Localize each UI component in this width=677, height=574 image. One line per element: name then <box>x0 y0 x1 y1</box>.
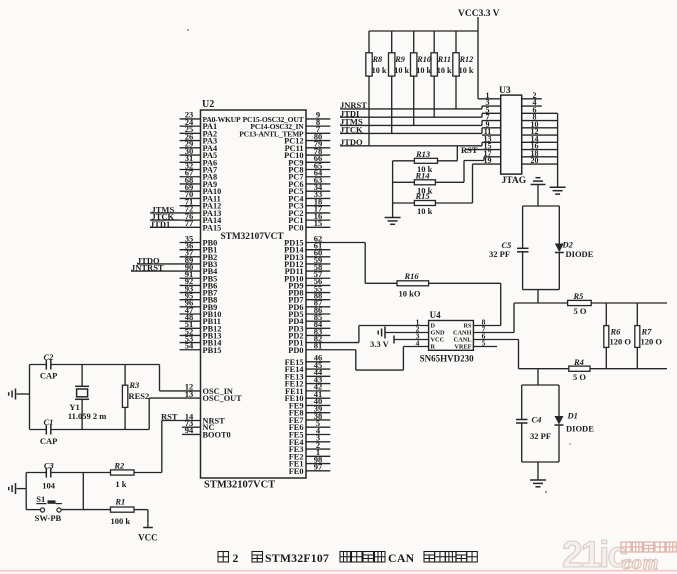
svg-text:97: 97 <box>314 462 323 472</box>
svg-text:DIODE: DIODE <box>566 249 594 259</box>
svg-text:10 k: 10 k <box>459 66 474 75</box>
svg-text:JTAG: JTAG <box>502 176 527 186</box>
svg-text:120 O: 120 O <box>610 336 632 346</box>
svg-text:R5: R5 <box>573 291 585 301</box>
svg-text:U4: U4 <box>430 310 441 320</box>
svg-text:32 PF: 32 PF <box>530 431 551 441</box>
svg-text:RES2: RES2 <box>129 391 150 401</box>
svg-text:R11: R11 <box>437 55 451 64</box>
svg-text:VREF: VREF <box>454 344 471 351</box>
svg-text:R3: R3 <box>128 380 140 390</box>
svg-text:PA15: PA15 <box>203 223 222 232</box>
svg-text:D1: D1 <box>567 410 578 420</box>
svg-text:R13: R13 <box>415 149 431 159</box>
svg-text:VCC3.3 V: VCC3.3 V <box>458 9 500 19</box>
svg-text:R14: R14 <box>415 171 430 181</box>
svg-text:PB15: PB15 <box>203 346 222 355</box>
svg-text:R7: R7 <box>641 326 653 336</box>
svg-text:VCC: VCC <box>138 533 158 543</box>
svg-text:GND: GND <box>431 330 445 337</box>
svg-text:10 kO: 10 kO <box>399 289 421 299</box>
svg-text:R10: R10 <box>416 55 431 64</box>
svg-text:RST: RST <box>161 411 178 421</box>
svg-text:FE0: FE0 <box>289 467 304 476</box>
svg-text:32 PF: 32 PF <box>489 249 510 259</box>
svg-text:R15: R15 <box>415 191 431 201</box>
svg-text:SW-PB: SW-PB <box>35 513 62 523</box>
svg-text:OSC_OUT: OSC_OUT <box>203 394 243 403</box>
svg-text:15: 15 <box>314 218 323 228</box>
svg-text:SN65HVD230: SN65HVD230 <box>420 353 475 363</box>
svg-text:2: 2 <box>233 551 239 565</box>
svg-text:3.3 V: 3.3 V <box>370 339 390 349</box>
svg-text:CAP: CAP <box>40 370 57 380</box>
svg-text:D2: D2 <box>562 239 574 249</box>
svg-text:R16: R16 <box>404 271 420 281</box>
svg-text:120 O: 120 O <box>641 336 663 346</box>
svg-text:C1: C1 <box>44 417 54 427</box>
svg-text:5 O: 5 O <box>574 306 587 316</box>
svg-text:C3: C3 <box>44 460 55 470</box>
svg-text:1 k: 1 k <box>115 479 126 489</box>
svg-text:10 k: 10 k <box>417 206 433 216</box>
svg-text:5 O: 5 O <box>573 372 586 382</box>
svg-text:VCC: VCC <box>431 337 445 344</box>
svg-text:19: 19 <box>484 156 492 165</box>
svg-text:10 k: 10 k <box>372 66 387 75</box>
svg-text:R4: R4 <box>573 357 584 367</box>
svg-text:R12: R12 <box>459 55 474 64</box>
svg-text:10 k: 10 k <box>437 66 452 75</box>
svg-text:U2: U2 <box>202 99 214 110</box>
svg-text:11.059 2 m: 11.059 2 m <box>68 411 107 421</box>
svg-text:77: 77 <box>185 218 194 228</box>
svg-text:R: R <box>431 344 436 351</box>
svg-text:R2: R2 <box>113 460 125 470</box>
svg-text:R8: R8 <box>372 55 383 64</box>
svg-text:DIODE: DIODE <box>566 423 594 433</box>
svg-text:54: 54 <box>185 341 194 351</box>
svg-text:94: 94 <box>185 425 194 435</box>
svg-text:104: 104 <box>42 480 56 490</box>
svg-text:CANL: CANL <box>454 337 472 344</box>
svg-text:PC0: PC0 <box>288 223 303 232</box>
svg-text:C2: C2 <box>44 352 55 362</box>
svg-text:R1: R1 <box>114 497 125 507</box>
svg-text:PD0: PD0 <box>288 346 303 355</box>
svg-text:U3: U3 <box>499 86 511 96</box>
svg-text:CANH: CANH <box>453 330 472 337</box>
svg-text:C4: C4 <box>532 414 542 424</box>
svg-text:D: D <box>431 323 436 330</box>
svg-text:CAP: CAP <box>40 436 57 446</box>
svg-text:R9: R9 <box>394 55 405 64</box>
svg-text:CAN: CAN <box>388 551 415 565</box>
svg-text:R6: R6 <box>610 326 622 336</box>
svg-text:20: 20 <box>531 156 539 165</box>
svg-text:81: 81 <box>314 341 323 351</box>
svg-text:100 k: 100 k <box>111 516 131 526</box>
svg-text:JTCK: JTCK <box>340 125 363 135</box>
svg-text:10 k: 10 k <box>394 66 409 75</box>
svg-text:STM32F107: STM32F107 <box>265 551 329 565</box>
svg-text:13: 13 <box>185 389 194 399</box>
svg-text:JTDO: JTDO <box>340 137 363 147</box>
svg-text:RS: RS <box>463 323 472 330</box>
svg-text:RST: RST <box>461 145 478 155</box>
svg-text:STM32107VCT: STM32107VCT <box>221 232 285 242</box>
svg-text:BOOT0: BOOT0 <box>203 430 231 439</box>
svg-text:S1: S1 <box>36 494 45 504</box>
svg-text:STM32107VCT: STM32107VCT <box>204 480 275 491</box>
svg-text:10 k: 10 k <box>416 66 431 75</box>
